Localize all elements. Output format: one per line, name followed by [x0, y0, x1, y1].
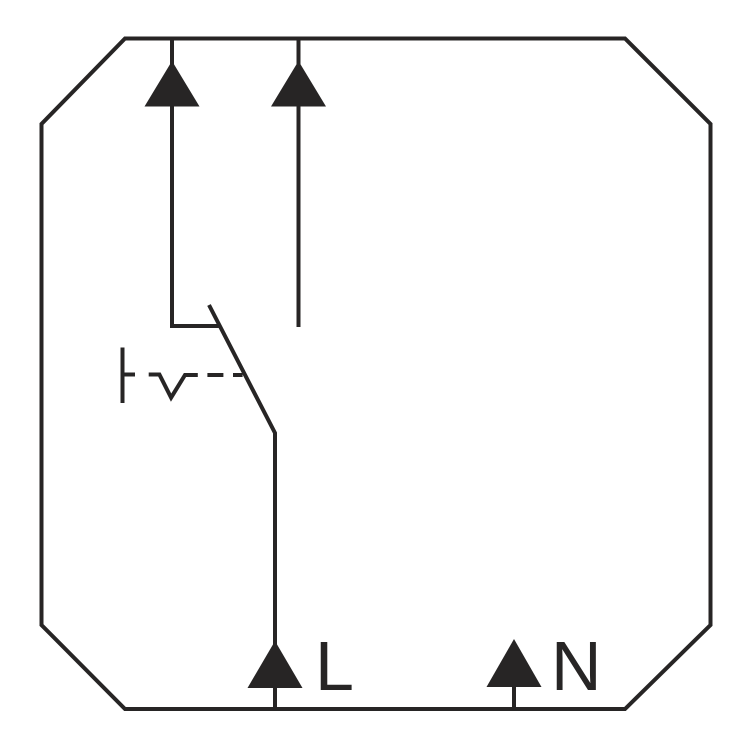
switch blade and wire down to L terminal: [209, 305, 275, 709]
wire: N terminal stub: [512, 687, 516, 709]
arrow: top-left terminal arrowhead: [145, 61, 200, 107]
wire: switched-live riser to top terminal with fixed contact: [172, 38, 219, 326]
push-button actuator: latch spring (V notch): [149, 375, 198, 398]
svg-text:L: L: [315, 627, 354, 705]
wire: permanent-live riser to top terminal: [297, 38, 301, 327]
flush-box enclosure outline (octagon): [42, 39, 711, 710]
mechanical linkage dashed line: [207, 373, 242, 377]
svg-text:N: N: [551, 627, 602, 705]
arrow: bottom N terminal arrowhead: [487, 639, 542, 687]
push-button actuator: button bar: [121, 348, 125, 404]
arrow: top-right terminal arrowhead: [271, 61, 326, 107]
arrow: bottom L terminal arrowhead: [248, 641, 303, 688]
push-button actuator: plunger stub: [123, 373, 136, 377]
